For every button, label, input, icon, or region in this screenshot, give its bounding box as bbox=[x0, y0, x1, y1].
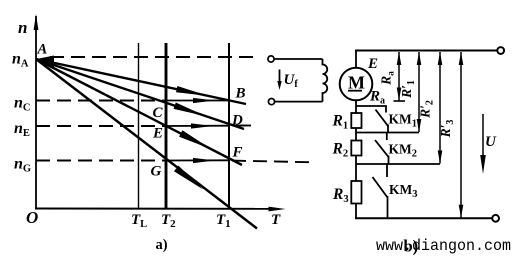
characteristic line 4 A-G-T1 bbox=[36, 59, 257, 229]
arrowheads converging at A bbox=[37, 56, 55, 68]
svg-text:b): b) bbox=[404, 237, 419, 256]
R2' measure line bbox=[439, 52, 441, 164]
R1' arrowheads bbox=[417, 52, 422, 65]
motor lead top bbox=[355, 51, 357, 68]
dashed n_G extension to circuit bbox=[232, 161, 314, 163]
y-axis n bbox=[35, 16, 37, 209]
jump segment G to F bbox=[166, 159, 229, 161]
characteristic line 3 A-E-F bbox=[36, 59, 242, 165]
motor M underline bbox=[348, 90, 362, 92]
vertical line at T_L bbox=[138, 43, 140, 209]
arrow on line 4 bbox=[174, 166, 203, 190]
svg-text:A: A bbox=[37, 42, 48, 58]
bottom supply wire bbox=[355, 217, 492, 219]
R_a measure line bbox=[398, 52, 400, 101]
branch node above R1 bbox=[356, 106, 386, 113]
KM3 lower stub bbox=[387, 196, 389, 218]
KM3 upper stub bbox=[386, 164, 388, 177]
top supply wire bbox=[355, 50, 498, 52]
contact KM1 bbox=[376, 110, 389, 127]
R1' measure line bbox=[418, 52, 420, 132]
x-axis arrowhead bbox=[269, 207, 286, 212]
contact KM3 bbox=[373, 177, 388, 198]
svg-text:D: D bbox=[231, 113, 243, 129]
field wire bottom bbox=[275, 101, 323, 103]
KM2 upper stub bbox=[386, 133, 388, 141]
arrow on line 3 bbox=[179, 130, 211, 149]
dashed level n_G bbox=[36, 160, 166, 162]
svg-text:www.diangon.com: www.diangon.com bbox=[376, 237, 511, 255]
field wire top bbox=[274, 58, 322, 60]
vertical line at T_1 bbox=[228, 43, 230, 209]
y-axis arrowhead bbox=[34, 14, 39, 30]
arrow on line 2 bbox=[174, 103, 206, 117]
svg-text:G: G bbox=[151, 164, 162, 180]
arrow on jump E-D bbox=[191, 123, 213, 128]
jump segment C to B bbox=[166, 100, 229, 102]
wire R2 to R3 bbox=[355, 156, 357, 182]
field terminal top bbox=[268, 56, 274, 62]
svg-text:U: U bbox=[485, 134, 497, 150]
U_f arrowhead bbox=[277, 81, 281, 90]
svg-text:E: E bbox=[367, 56, 378, 72]
motor lead bottom bbox=[355, 100, 357, 113]
R3' arrowheads bbox=[459, 52, 464, 65]
KM2 lower stub bbox=[388, 156, 390, 165]
arrow on line 1 bbox=[176, 86, 208, 96]
node wire below R1 bbox=[356, 132, 419, 134]
R3' measure line bbox=[460, 52, 462, 218]
resistor R2 box bbox=[351, 141, 361, 156]
U arrowhead bbox=[480, 155, 486, 174]
arrow on jump G-F bbox=[193, 158, 215, 163]
characteristic line 1 A-B natural bbox=[36, 59, 246, 104]
node wire below R2 bbox=[356, 163, 440, 165]
contact KM2 bbox=[375, 140, 389, 157]
KM1 lower stub bbox=[387, 125, 389, 133]
dashed level n_E bbox=[36, 125, 166, 127]
field terminal bottom bbox=[268, 99, 274, 105]
svg-text:F: F bbox=[232, 145, 243, 161]
x-axis T bbox=[35, 208, 270, 210]
dash of n_E beyond T_1 bbox=[236, 125, 251, 127]
bottom terminal bbox=[492, 215, 499, 222]
svg-text:a): a) bbox=[156, 237, 168, 253]
dashed level n_C bbox=[36, 100, 166, 102]
svg-text:O: O bbox=[26, 208, 38, 227]
svg-text:T: T bbox=[271, 212, 281, 228]
dashed level n_A bbox=[50, 56, 253, 58]
vertical line at T_2 bbox=[165, 43, 168, 209]
R2' arrowheads bbox=[438, 52, 443, 65]
resistor R3 box bbox=[351, 181, 361, 204]
svg-text:E: E bbox=[152, 126, 163, 142]
motor M circle bbox=[340, 68, 373, 101]
characteristic line 2 A-C-D bbox=[36, 59, 244, 129]
wire R1 to R2 bbox=[355, 128, 357, 141]
U arrow shaft bbox=[482, 114, 484, 160]
top terminal bbox=[497, 47, 504, 54]
arrow U_f shaft bbox=[279, 70, 281, 84]
R_a arrowheads bbox=[397, 52, 402, 65]
svg-text:M: M bbox=[348, 73, 365, 93]
resistor R1 box bbox=[351, 113, 361, 128]
svg-text:C: C bbox=[153, 105, 164, 121]
R_a bottom tick bbox=[394, 100, 406, 102]
jump segment E to D bbox=[166, 125, 229, 127]
field winding coil L bbox=[323, 59, 328, 102]
wire R3 to bottom bbox=[355, 204, 357, 219]
arrow on jump C-B bbox=[193, 98, 215, 103]
svg-text:B: B bbox=[235, 86, 246, 102]
svg-text:n: n bbox=[18, 18, 27, 37]
